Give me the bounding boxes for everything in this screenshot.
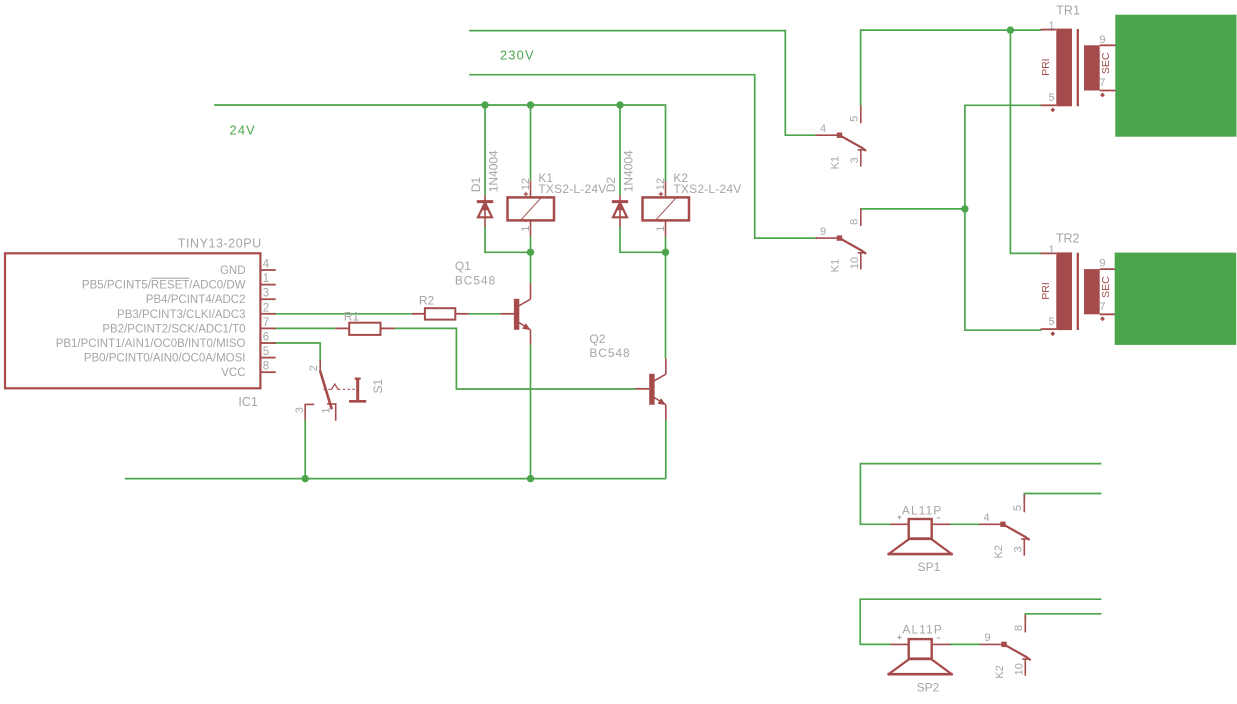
IC1 pin numbers 4 1 3 2 7 6 5 8 <box>263 259 270 373</box>
value TXS2-L-24V of K2 <box>673 182 741 196</box>
svg-text:PRI: PRI <box>1040 58 1052 76</box>
svg-text:PB3/PCINT3/CLKI/ADC3: PB3/PCINT3/CLKI/ADC3 <box>117 309 245 321</box>
junction 24V/K1 <box>527 101 534 108</box>
wire 230V to K1 contact pin 4 <box>470 31 817 136</box>
svg-text:AL11P: AL11P <box>902 623 942 637</box>
svg-text:6: 6 <box>263 332 269 344</box>
label Q1 <box>455 259 471 273</box>
svg-text:PB2/PCINT2/SCK/ADC1/T0: PB2/PCINT2/SCK/ADC1/T0 <box>102 323 245 335</box>
S1 pin 2 number <box>308 365 320 371</box>
net label 230V <box>500 48 535 63</box>
svg-text:5: 5 <box>1048 316 1054 328</box>
green block over TR2 secondary <box>1115 253 1237 345</box>
wire 230V to K1 contact pin 9 <box>470 75 817 238</box>
wire SP2 plus net <box>860 599 1100 644</box>
svg-text:10: 10 <box>849 257 861 269</box>
wire node to TR2 pin 1 <box>1010 30 1040 253</box>
junction 24V/D1 <box>481 101 488 108</box>
svg-text:5: 5 <box>1012 505 1024 511</box>
svg-text:3: 3 <box>294 407 306 413</box>
svg-text:1N4004: 1N4004 <box>622 150 636 192</box>
svg-text:PB5/PCINT5/RESET/ADC0/DW: PB5/PCINT5/RESET/ADC0/DW <box>82 280 246 292</box>
svg-text:4: 4 <box>820 123 826 135</box>
wire SP1 minus to K2 pin 4 <box>950 523 980 525</box>
svg-text:SP2: SP2 <box>917 680 940 694</box>
wire 24V to D1 <box>484 105 486 195</box>
wire D1 cathode to node <box>485 227 531 253</box>
K2 contact labels 9 8 10 K2 <box>985 625 1026 679</box>
svg-text:7: 7 <box>1099 301 1105 313</box>
diode D2 1N4004 <box>612 195 628 226</box>
diode D1 1N4004 <box>477 195 493 226</box>
svg-text:12: 12 <box>655 178 667 190</box>
wire K1 pin 5 to TR1 pin 1 <box>861 30 1041 105</box>
svg-text:TINY13-20PU: TINY13-20PU <box>178 237 262 251</box>
switch S1 pin 3 <box>305 404 313 419</box>
S1 pin 3 number <box>294 407 306 413</box>
K2 contact labels 4 5 3 K2 <box>984 505 1025 559</box>
switch S1 pin 1 <box>328 404 336 420</box>
K1 contact labels 4 5 3 K1 <box>820 116 861 170</box>
speaker SP1 AL11P <box>888 515 953 554</box>
junction 24V/D2 <box>616 101 623 108</box>
relay contact K2 pins 4/3/5 <box>979 495 1029 556</box>
junction S1/ground bus <box>302 475 309 482</box>
value TXS2-L-24V of K1 <box>538 182 606 196</box>
label K2 <box>673 171 688 185</box>
TR2 pin 1 number <box>1048 244 1054 256</box>
S1 pin 1 number <box>320 407 332 413</box>
wire K1 pin 8 to node <box>861 208 965 210</box>
wire 24V to K1 coil <box>530 105 532 181</box>
wire SP1 plus net <box>860 464 1100 525</box>
svg-text:4: 4 <box>263 259 270 271</box>
value AL11P of SP2 <box>902 623 942 637</box>
K1 coil pin 1 number <box>520 226 532 232</box>
wire node to Q2 collector <box>665 252 667 358</box>
wire 24V to D2 <box>619 105 621 195</box>
junction K2 coil / Q2 collector <box>662 249 669 256</box>
resistor R2 <box>412 308 469 319</box>
wire ground bus <box>125 478 666 480</box>
relay contact K1 pins 9/10/8 <box>816 208 866 269</box>
value 1N4004 of D2 <box>622 150 636 192</box>
wire SP2 minus to K2 pin 9 <box>949 643 981 645</box>
wire D2 cathode to node <box>620 227 666 253</box>
label R2 <box>419 294 435 308</box>
resistor R1 <box>335 323 394 335</box>
TR1 pin 1 number <box>1048 20 1054 32</box>
junction Q1 emitter/ground bus <box>527 475 534 482</box>
svg-text:PRI: PRI <box>1040 282 1052 300</box>
TR1 pin 9 number <box>1099 34 1105 46</box>
svg-text:1N4004: 1N4004 <box>487 150 501 192</box>
svg-text:IC1: IC1 <box>238 395 258 409</box>
svg-text:AL11P: AL11P <box>902 503 942 517</box>
svg-text:SEC: SEC <box>1100 52 1112 74</box>
svg-text:BC548: BC548 <box>455 274 496 288</box>
svg-text:9: 9 <box>1099 34 1105 46</box>
value BC548 of Q2 <box>589 346 630 360</box>
value BC548 of Q1 <box>455 274 496 288</box>
wire Q1 emitter to ground bus <box>530 345 532 479</box>
svg-text:VCC: VCC <box>221 367 245 379</box>
IC1 RESET overline <box>151 277 189 279</box>
svg-text:5: 5 <box>1048 92 1054 104</box>
junction K1 pin 8 node <box>961 205 968 212</box>
svg-text:K2: K2 <box>994 665 1006 678</box>
K1 contact labels 9 8 10 K1 <box>820 219 861 273</box>
svg-text:1: 1 <box>520 226 532 232</box>
label SP1 <box>918 560 941 574</box>
label D1 <box>469 177 483 193</box>
IC1 pin names <box>56 265 246 379</box>
svg-text:TXS2-L-24V: TXS2-L-24V <box>673 182 741 196</box>
transistor Q2 BC548 <box>636 358 667 419</box>
label S1 <box>371 378 385 393</box>
label Q2 <box>589 332 605 346</box>
svg-text:230V: 230V <box>500 48 535 63</box>
junction TR1/TR2 pin 1 feed <box>1007 26 1014 33</box>
label TR1 <box>1056 3 1080 17</box>
TR2 PRI label <box>1040 282 1052 300</box>
label SP2 <box>917 680 940 694</box>
svg-text:1: 1 <box>655 226 667 232</box>
label D2 <box>604 177 618 193</box>
svg-text:K2: K2 <box>993 545 1005 558</box>
label R1 <box>344 309 360 323</box>
wire Q2 emitter to ground bus <box>665 420 667 479</box>
svg-text:5: 5 <box>263 346 269 358</box>
svg-text:2: 2 <box>263 302 269 314</box>
svg-text:5: 5 <box>849 116 861 122</box>
wire 24V rail <box>215 105 666 181</box>
svg-text:R2: R2 <box>419 294 435 308</box>
svg-text:8: 8 <box>849 219 861 225</box>
relay coil K1 <box>508 181 555 237</box>
svg-text:TR2: TR2 <box>1056 232 1080 246</box>
value AL11P of SP1 <box>902 503 942 517</box>
svg-text:SEC: SEC <box>1100 276 1112 298</box>
K2 coil pin 12 number <box>655 178 667 190</box>
svg-text:TXS2-L-24V: TXS2-L-24V <box>538 182 606 196</box>
wire K2 coil pin 1 to node <box>665 236 667 252</box>
wire K2 pin 8 net <box>1025 614 1100 620</box>
TR1 PRI label <box>1040 58 1052 76</box>
svg-text:8: 8 <box>263 361 269 373</box>
svg-text:1: 1 <box>1048 20 1054 32</box>
svg-text:24V: 24V <box>230 123 256 138</box>
transformer TR2 <box>1041 252 1117 336</box>
label TR2 <box>1056 232 1080 246</box>
green block over TR1 secondary <box>1115 15 1236 137</box>
wire K2 pin 5 net <box>1024 494 1100 501</box>
IC1 name label <box>238 395 258 409</box>
TR2 pin 5 number <box>1048 316 1054 328</box>
switch S1 blade <box>320 372 331 409</box>
svg-text:GND: GND <box>220 265 246 277</box>
wire IC1 pin 6 to S1 pin 2 <box>273 343 320 360</box>
svg-text:9: 9 <box>1099 258 1105 270</box>
transformer TR1 <box>1041 29 1117 113</box>
svg-text:3: 3 <box>1012 546 1024 552</box>
svg-text:S1: S1 <box>371 378 385 393</box>
svg-text:3: 3 <box>849 157 861 163</box>
svg-text:4: 4 <box>984 512 990 524</box>
TR1 SEC label <box>1100 52 1112 74</box>
svg-text:K1: K1 <box>830 259 842 272</box>
svg-text:1: 1 <box>1048 244 1054 256</box>
svg-text:Q2: Q2 <box>589 332 605 346</box>
svg-text:Q1: Q1 <box>455 259 471 273</box>
svg-text:SP1: SP1 <box>918 560 941 574</box>
wire K1 coil pin 1 to node <box>530 236 532 252</box>
wire R1 to Q2 base <box>395 328 636 389</box>
junction K1 coil / Q1 collector <box>527 249 534 256</box>
IC U1 TINY13-20PU body <box>5 253 260 388</box>
transistor Q1 BC548 <box>500 283 531 344</box>
svg-text:9: 9 <box>820 226 826 238</box>
svg-text:K1: K1 <box>830 156 842 169</box>
relay coil K2 <box>643 181 690 237</box>
TR2 pin 9 number <box>1099 258 1105 270</box>
svg-text:PB1/PCINT1/AIN1/OC0B/INT0/MISO: PB1/PCINT1/AIN1/OC0B/INT0/MISO <box>56 338 246 350</box>
TR2 SEC label <box>1100 276 1112 298</box>
wire S1 pin 3 to ground bus <box>304 419 306 479</box>
svg-text:PB4/PCINT4/ADC2: PB4/PCINT4/ADC2 <box>146 294 246 306</box>
IC1 pin stubs <box>260 270 275 372</box>
net label 24V <box>230 123 256 138</box>
K2 coil pin 1 number <box>655 226 667 232</box>
speaker SP2 AL11P <box>888 635 953 674</box>
value 1N4004 of D1 <box>487 150 501 192</box>
svg-text:10: 10 <box>1013 663 1025 675</box>
wire IC1 pin 2 to R2 <box>273 313 411 315</box>
wire IC1 pin 7 to R1 <box>273 327 335 329</box>
wire R2 to Q1 base <box>469 313 501 315</box>
svg-text:7: 7 <box>263 317 269 329</box>
switch S1 plunger <box>349 378 366 401</box>
TR2 pin 7 number <box>1099 301 1105 313</box>
wire TR1 pin 5 / TR2 pin 5 <box>965 105 1041 330</box>
K1 coil pin 12 number <box>520 178 532 190</box>
svg-text:12: 12 <box>520 178 532 190</box>
switch S1 actuator link <box>324 384 357 389</box>
svg-text:8: 8 <box>1013 625 1025 631</box>
TR1 pin 7 number <box>1099 77 1105 89</box>
svg-text:PB0/PCINT0/AIN0/OC0A/MOSI: PB0/PCINT0/AIN0/OC0A/MOSI <box>84 353 246 365</box>
svg-text:BC548: BC548 <box>589 346 630 360</box>
svg-text:R1: R1 <box>344 309 360 323</box>
svg-text:9: 9 <box>985 632 991 644</box>
wire node to Q1 collector <box>530 252 532 283</box>
svg-text:2: 2 <box>308 365 320 371</box>
TR1 pin 5 number <box>1048 92 1054 104</box>
relay contact K2 pins 9/10/8 <box>980 615 1030 676</box>
svg-text:1: 1 <box>263 273 269 285</box>
relay contact K1 pins 4/3/5 <box>816 105 866 166</box>
svg-text:7: 7 <box>1099 77 1105 89</box>
label K1 <box>538 171 553 185</box>
svg-text:TR1: TR1 <box>1056 3 1080 17</box>
IC1 part value label <box>178 237 262 251</box>
svg-text:3: 3 <box>263 288 269 300</box>
switch S1 pin 2 <box>319 360 321 372</box>
svg-text:1: 1 <box>320 407 332 413</box>
svg-text:D1: D1 <box>469 177 483 193</box>
